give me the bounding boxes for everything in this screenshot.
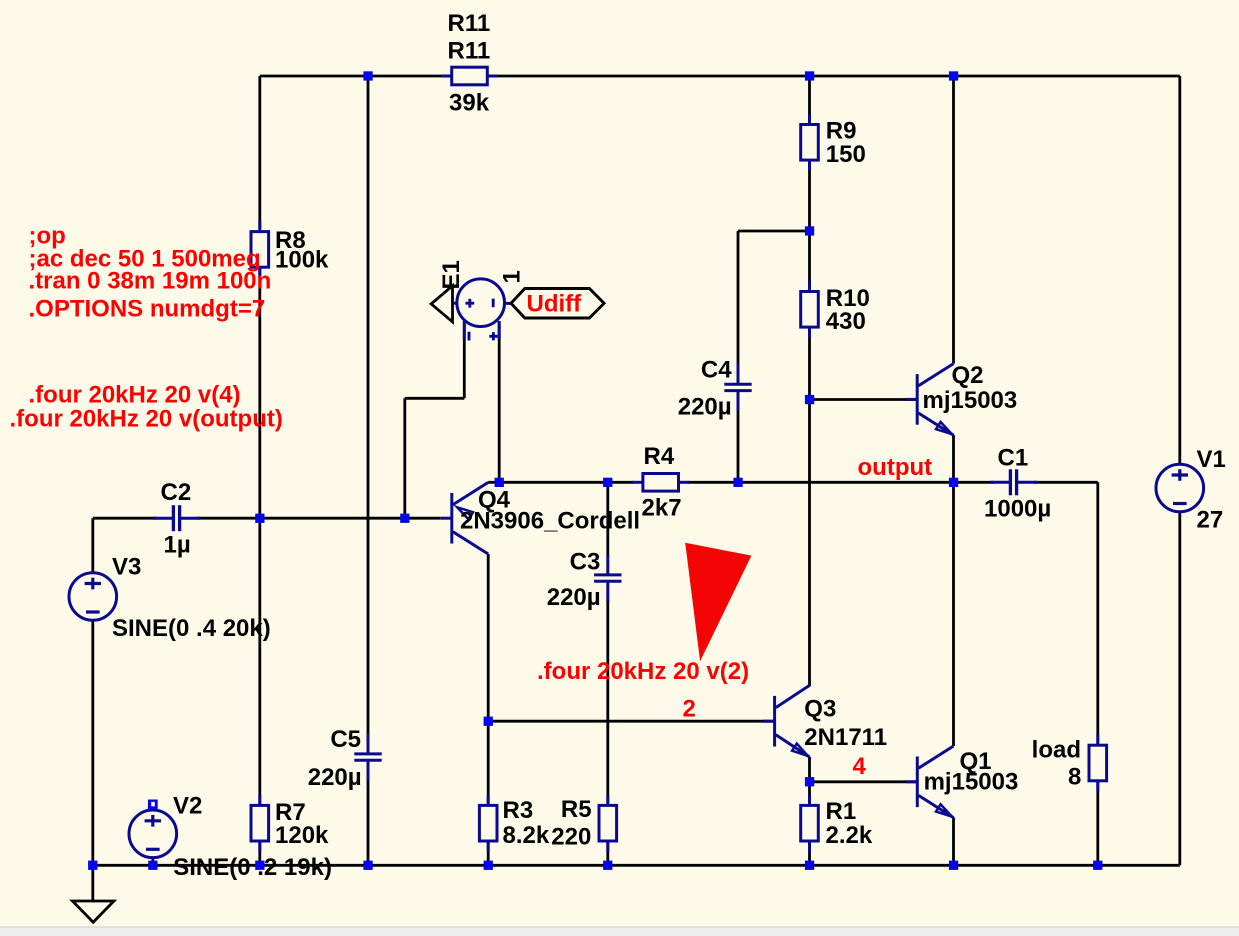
svg-text:4: 4 bbox=[853, 753, 867, 780]
label R11 (attr) bbox=[448, 10, 491, 37]
wire R7 to bottom rail bbox=[258, 842, 261, 865]
label R11 bbox=[448, 37, 491, 64]
svg-text:1µ: 1µ bbox=[164, 532, 191, 559]
value SINE(0 .4 20k) bbox=[112, 615, 271, 642]
value 120k bbox=[275, 822, 329, 849]
svg-text:V3: V3 bbox=[112, 554, 141, 581]
junction R7 / bottom rail bbox=[255, 861, 264, 870]
svg-text:R11: R11 bbox=[448, 37, 491, 64]
transistor Q2 bbox=[906, 364, 953, 436]
wire Q2 emitter to output node bbox=[952, 435, 955, 482]
svg-text:220: 220 bbox=[551, 823, 591, 850]
spice directive ;ac bbox=[29, 245, 261, 272]
resistor R8 bbox=[251, 221, 269, 278]
label C3 bbox=[570, 548, 601, 575]
wire E1 left pin down bbox=[463, 322, 466, 398]
wire R10 to Q2 base node bbox=[808, 328, 811, 400]
svg-text:2: 2 bbox=[683, 696, 696, 723]
svg-text:2N1711: 2N1711 bbox=[804, 724, 887, 751]
wire Q2 base node down to Q3 collector bbox=[808, 400, 811, 687]
value SINE(0 .2 19k) bbox=[173, 854, 332, 881]
label R10 bbox=[826, 285, 870, 312]
wire ground stub bbox=[91, 865, 94, 901]
wire R8 to node at C2 row bbox=[258, 268, 261, 519]
label V3 bbox=[112, 554, 141, 581]
value 2N1711 (Q3) bbox=[804, 724, 887, 751]
svg-text:2N3906_Cordell: 2N3906_Cordell bbox=[460, 507, 640, 534]
svg-text:430: 430 bbox=[826, 308, 866, 335]
value 220u (C4) bbox=[678, 394, 732, 421]
svg-text:2k7: 2k7 bbox=[642, 495, 682, 522]
wire C1 to load corner bbox=[1034, 481, 1098, 484]
junction Q3 emitter / node 4 bbox=[805, 777, 814, 786]
junction R9-R10 / C4 bbox=[805, 226, 814, 235]
spice directive ;op bbox=[29, 223, 66, 250]
wire V3 top bbox=[91, 518, 94, 572]
junction C4 / output row bbox=[733, 478, 742, 487]
svg-text:load: load bbox=[1032, 736, 1081, 763]
junction output node bbox=[949, 478, 958, 487]
svg-text:100k: 100k bbox=[275, 247, 329, 274]
value 220u (C5) bbox=[308, 764, 362, 791]
junction R3 / bottom rail bbox=[484, 861, 493, 870]
resistor R11 bbox=[441, 67, 498, 85]
wire V3 bottom to rail bbox=[91, 621, 94, 866]
value 2N3906_Cordell (Q4) bbox=[460, 507, 640, 534]
label R7 bbox=[275, 799, 306, 826]
spice directive .OPTIONS bbox=[29, 295, 266, 322]
svg-text:39k: 39k bbox=[449, 89, 490, 116]
svg-text:1: 1 bbox=[498, 270, 525, 283]
wire C2 to Q4 base bbox=[197, 517, 441, 520]
wire R4 to output node bbox=[688, 481, 954, 484]
node label 2 bbox=[683, 696, 696, 723]
transistor Q4 bbox=[441, 482, 488, 554]
svg-text:.four 20kHz 20 v(output): .four 20kHz 20 v(output) bbox=[10, 406, 283, 433]
value 220u (C3) bbox=[547, 584, 601, 611]
label R1 bbox=[826, 798, 857, 825]
label Q1 bbox=[960, 748, 992, 775]
wire top rail left of R11 bbox=[260, 75, 443, 78]
resistor R10 bbox=[801, 281, 819, 338]
wire Q2 collector rail bbox=[952, 76, 955, 364]
net flag Udiff bbox=[511, 289, 604, 319]
label R5 bbox=[561, 796, 592, 823]
wire Q3 emitter node bbox=[808, 757, 811, 782]
wire output node to Q1 collector bbox=[952, 482, 955, 746]
wire top rail right of R11 bbox=[497, 75, 1180, 78]
voltage source V1 bbox=[1156, 464, 1204, 512]
wire output node to C1 bbox=[954, 481, 994, 484]
value 430 bbox=[826, 308, 866, 335]
net name Udiff bbox=[527, 291, 583, 318]
junction R10 / Q2 base bbox=[805, 395, 814, 404]
wire E1 jog down to input row bbox=[403, 398, 406, 518]
label C4 bbox=[701, 356, 732, 383]
svg-text:SINE(0 .2 19k): SINE(0 .2 19k) bbox=[173, 854, 332, 881]
value 2k7 bbox=[642, 495, 682, 522]
wire Q4 collector node to R3 bbox=[487, 721, 490, 803]
label Q4 bbox=[478, 486, 511, 513]
wire node 4 row to Q1 base bbox=[810, 780, 918, 783]
ground bbox=[73, 901, 114, 922]
svg-text:220µ: 220µ bbox=[547, 584, 601, 611]
svg-text:1000µ: 1000µ bbox=[984, 496, 1051, 523]
wire R8 branch top bbox=[258, 76, 261, 231]
value 2.2k bbox=[826, 822, 873, 849]
capacitor C1 bbox=[990, 469, 1037, 495]
transistor Q1 bbox=[906, 746, 953, 818]
value 150 bbox=[826, 141, 866, 168]
junction C5 / bottom rail bbox=[363, 861, 372, 870]
spice directive .tran bbox=[29, 268, 272, 295]
node label 4 bbox=[853, 753, 867, 780]
svg-text:V1: V1 bbox=[1197, 446, 1226, 473]
junction R1 / bottom rail bbox=[805, 861, 814, 870]
label load bbox=[1032, 736, 1081, 763]
value 1u (C2) bbox=[164, 532, 191, 559]
value 1000u (C1) bbox=[984, 496, 1051, 523]
wire V+ right edge down to V1 bbox=[1178, 76, 1181, 464]
junction E1 branch / input row bbox=[400, 514, 409, 523]
junction ground / bottom rail bbox=[88, 861, 97, 870]
svg-text:120k: 120k bbox=[275, 822, 329, 849]
wire Q4 collector down bbox=[487, 554, 490, 721]
junction R8 / input row bbox=[255, 514, 264, 523]
svg-text:220µ: 220µ bbox=[678, 394, 732, 421]
label R4 bbox=[644, 443, 675, 470]
node label output bbox=[858, 454, 933, 481]
wire node to R7 bbox=[258, 518, 261, 805]
value mj15003 (Q2) bbox=[923, 387, 1018, 414]
wire C4 vertical bottom bbox=[737, 408, 740, 483]
wire R1 top bbox=[808, 782, 811, 804]
wire V2 stub bbox=[151, 858, 154, 866]
wire C4 node to R10 bbox=[808, 231, 811, 289]
wire Q1 emitter to bottom rail bbox=[952, 818, 955, 866]
svg-text:2.2k: 2.2k bbox=[826, 822, 873, 849]
value 8.2k bbox=[503, 822, 550, 849]
label R9 bbox=[826, 117, 857, 144]
svg-text:.four 20kHz 20 v(4): .four 20kHz 20 v(4) bbox=[29, 382, 241, 409]
resistor R1 bbox=[801, 795, 819, 852]
dependent source E1 bbox=[453, 279, 512, 341]
svg-text:mj15003: mj15003 bbox=[924, 769, 1019, 796]
junction R5 / bottom rail bbox=[603, 861, 612, 870]
value 220 (R5) bbox=[551, 823, 591, 850]
label V1 bbox=[1197, 446, 1226, 473]
svg-text:C2: C2 bbox=[161, 479, 192, 506]
svg-text:Udiff: Udiff bbox=[527, 291, 583, 318]
resistor R3 bbox=[479, 795, 497, 852]
wire C5 to bottom rail bbox=[367, 777, 370, 865]
svg-text:Q3: Q3 bbox=[804, 696, 836, 723]
wire V1 to bottom rail bbox=[1178, 512, 1181, 865]
voltage source V3 bbox=[69, 573, 117, 621]
svg-text:C5: C5 bbox=[330, 726, 361, 753]
svg-text:27: 27 bbox=[1197, 507, 1224, 534]
svg-text:mj15003: mj15003 bbox=[923, 387, 1018, 414]
label V2 bbox=[173, 793, 202, 820]
svg-text:.OPTIONS numdgt=7: .OPTIONS numdgt=7 bbox=[29, 295, 266, 322]
label C2 bbox=[161, 479, 192, 506]
wire load corner down to load bbox=[1096, 482, 1099, 743]
wire load to bottom rail bbox=[1096, 783, 1099, 866]
wire Q3 base row bbox=[488, 720, 774, 723]
wire C4 top branch bbox=[738, 230, 810, 233]
junction C3 / output row bbox=[603, 478, 612, 487]
svg-text:8: 8 bbox=[1068, 764, 1081, 791]
junction top rail / Q2 collector bbox=[949, 71, 958, 80]
svg-text:R4: R4 bbox=[644, 443, 675, 470]
resistor R9 bbox=[801, 114, 819, 171]
wire R9 to C4 node bbox=[808, 163, 811, 232]
wire R1 to bottom rail bbox=[808, 843, 811, 865]
svg-text:8.2k: 8.2k bbox=[503, 822, 550, 849]
junction load / bottom rail bbox=[1093, 861, 1102, 870]
wire E1 right pin down to output row bbox=[498, 322, 501, 482]
wire C4 vertical top bbox=[737, 231, 740, 367]
spice directive .four v(4) bbox=[29, 382, 241, 409]
value mj15003 (Q1) bbox=[924, 769, 1019, 796]
label R3 bbox=[503, 797, 534, 824]
svg-text:.four 20kHz 20 v(2): .four 20kHz 20 v(2) bbox=[537, 658, 749, 685]
svg-text:220µ: 220µ bbox=[308, 764, 362, 791]
junction Q4 collector / Q3 base row bbox=[484, 717, 493, 726]
label Q2 bbox=[952, 362, 984, 389]
wire output row Q4 emitter to R4 bbox=[488, 481, 633, 484]
svg-text:R11: R11 bbox=[448, 10, 491, 37]
value 8 (load) bbox=[1068, 764, 1081, 791]
value 27 bbox=[1197, 507, 1224, 534]
svg-text:C1: C1 bbox=[998, 445, 1029, 472]
wire R3 to bottom rail bbox=[487, 843, 490, 865]
junction top rail / C5 bbox=[363, 71, 372, 80]
svg-text:C3: C3 bbox=[570, 548, 601, 575]
value 100k bbox=[275, 247, 329, 274]
wire C5 branch top bbox=[367, 76, 370, 737]
resistor R7 bbox=[251, 795, 269, 852]
capacitor C2 bbox=[153, 505, 200, 531]
resistor load bbox=[1089, 735, 1107, 792]
resistor R5 bbox=[599, 795, 617, 852]
wire E1 jog left bbox=[405, 397, 465, 400]
svg-text:R1: R1 bbox=[826, 798, 857, 825]
wire C3 to R5 bbox=[606, 600, 609, 804]
svg-text:R3: R3 bbox=[503, 797, 534, 824]
label Q3 bbox=[804, 696, 836, 723]
svg-text:C4: C4 bbox=[701, 356, 732, 383]
svg-text:.tran 0 38m 19m 100n: .tran 0 38m 19m 100n bbox=[29, 268, 272, 295]
junction V2 / bottom rail bbox=[148, 861, 157, 870]
wire C3 node down bbox=[606, 482, 609, 556]
spice directive .four v(output) bbox=[10, 406, 283, 433]
wire R5 to bottom rail bbox=[606, 843, 609, 865]
voltage source V2 bbox=[129, 810, 177, 858]
capacitor C4 bbox=[724, 364, 751, 411]
transistor Q3 bbox=[764, 685, 810, 757]
window bottom strip bbox=[0, 927, 1239, 936]
svg-text:V2: V2 bbox=[173, 793, 202, 820]
label C1 bbox=[998, 445, 1029, 472]
label C5 bbox=[330, 726, 361, 753]
svg-text:output: output bbox=[858, 454, 933, 481]
value 1 (E1) bbox=[498, 270, 525, 283]
capacitor C3 bbox=[594, 555, 621, 602]
value 39k bbox=[449, 89, 490, 116]
svg-text:SINE(0 .4 20k): SINE(0 .4 20k) bbox=[112, 615, 271, 642]
label E1 bbox=[438, 260, 465, 289]
wire R9 branch bbox=[808, 76, 811, 122]
svg-text:150: 150 bbox=[826, 141, 866, 168]
red marker triangle bbox=[685, 543, 751, 662]
ground flag at E1 bbox=[431, 286, 452, 322]
wire bottom ground rail bbox=[93, 864, 1180, 867]
svg-text:R5: R5 bbox=[561, 796, 592, 823]
spice directive .four v(2) bbox=[537, 658, 749, 685]
capacitor C5 bbox=[354, 734, 381, 781]
wire input row V3 to Q4 base bbox=[93, 517, 157, 520]
junction Q1 emitter / bottom rail bbox=[949, 861, 958, 870]
junction E1 right pin / output row bbox=[495, 478, 504, 487]
junction top rail / R9 bbox=[805, 71, 814, 80]
wire Q2 base bbox=[810, 398, 918, 401]
V2 dangling pin marker bbox=[148, 800, 158, 810]
resistor R4 bbox=[632, 474, 689, 492]
label R8 bbox=[275, 227, 306, 254]
svg-text:Q2: Q2 bbox=[952, 362, 984, 389]
